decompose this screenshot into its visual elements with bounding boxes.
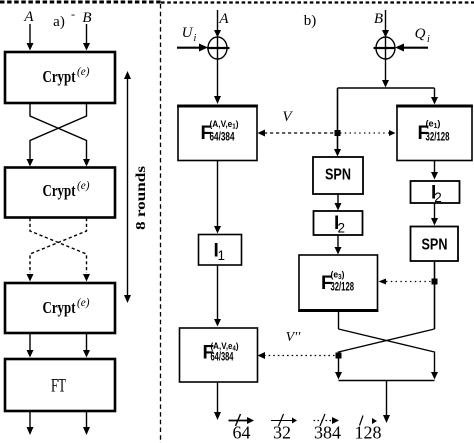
svg-text:SPN: SPN — [325, 167, 351, 184]
junction V'' — [336, 353, 342, 359]
box I1 — [199, 235, 242, 266]
svg-text:i: i — [427, 34, 430, 45]
svg-text:384: 384 — [314, 423, 341, 443]
svg-text:Crypt: Crypt — [43, 181, 76, 200]
wire SPN right down to crossing — [434, 261, 436, 329]
label Qi — [415, 26, 430, 45]
legend 32 — [271, 414, 297, 443]
svg-text:Crypt: Crypt — [43, 67, 76, 86]
svg-text:(e1): (e1) — [426, 119, 441, 131]
svg-text:(e3): (e3) — [331, 270, 345, 282]
dotted wire feedback into F3 — [379, 279, 435, 285]
wire I2 to F3 — [335, 235, 342, 255]
svg-text:32/128: 32/128 — [331, 282, 355, 294]
svg-text:8 rounds: 8 rounds — [134, 165, 149, 230]
arrow Ui into xor1 — [177, 44, 208, 52]
wire B input — [83, 24, 90, 51]
svg-text:A: A — [23, 9, 34, 25]
svg-text:2: 2 — [338, 221, 346, 236]
wire F3 down into crossing — [338, 311, 340, 329]
xor 2 — [374, 37, 396, 59]
svg-text:SPN: SPN — [422, 237, 448, 254]
box I2 (left chain) — [314, 211, 363, 236]
merge bus line — [339, 380, 435, 382]
box Crypt round 2 — [5, 168, 115, 218]
svg-text:32: 32 — [273, 423, 291, 443]
box F4 F64/384 (A,V,e4) — [180, 328, 258, 382]
svg-text:i: i — [194, 33, 197, 44]
dashed wire V into F1 — [258, 130, 338, 137]
svg-text:Crypt: Crypt — [43, 298, 76, 317]
legend 384 — [314, 414, 342, 443]
box I2 (right chain) — [411, 181, 460, 205]
dashed top border — [0, 1, 474, 5]
box SPN (left chain) — [313, 157, 363, 194]
svg-text:(e): (e) — [77, 297, 90, 309]
svg-text:64/384: 64/384 — [211, 352, 234, 364]
svg-text:32/128: 32/128 — [426, 132, 450, 144]
wire B to xor2 — [382, 10, 389, 38]
svg-text:1: 1 — [218, 248, 226, 263]
svg-text:64/384: 64/384 — [210, 132, 235, 144]
box Crypt round 3 — [5, 283, 115, 333]
svg-text:U: U — [182, 25, 194, 41]
box SPN (right chain) — [411, 227, 459, 262]
wire split to F2 (right branch) — [431, 88, 438, 105]
box FT — [5, 359, 115, 411]
box F1 F64/384 (A,V,e1) — [177, 106, 258, 161]
svg-text:2: 2 — [434, 190, 442, 205]
box F3 F32/128 (e3) — [298, 255, 378, 311]
wire xor1 to F1 — [214, 58, 221, 104]
xor 1 — [207, 37, 230, 59]
wire split to SPN (left branch) — [334, 88, 341, 157]
output arrow of F4 — [214, 382, 221, 420]
svg-text:(e): (e) — [77, 180, 90, 192]
box Crypt round 1 — [5, 52, 115, 103]
wires Crypt3 to FT — [27, 333, 91, 358]
wire xor2 down to split — [382, 58, 389, 88]
split bus line — [338, 87, 435, 89]
dashed divider between a) and b) — [160, 4, 162, 443]
wire crossing 1 — [27, 103, 91, 167]
output arrows of a) — [27, 411, 91, 435]
dotted wire V'' into F4 — [258, 352, 339, 359]
legend 128 — [355, 416, 382, 443]
wire SPN to I2 — [335, 194, 342, 211]
wire crossing b) — [335, 329, 438, 380]
svg-text:(e): (e) — [77, 66, 90, 78]
output arrow of b) merge — [383, 381, 390, 424]
arrow Qi into xor2 — [395, 44, 428, 52]
wire A input — [27, 24, 34, 51]
wire F1 to I1 — [214, 161, 221, 234]
svg-text:FT: FT — [51, 376, 66, 397]
legend 64 — [229, 414, 255, 443]
box F2 F32/128 (e1) — [396, 106, 473, 161]
wire F2 to I2 (right chain) — [431, 161, 438, 180]
svg-text:-: - — [71, 7, 75, 21]
junction on SPN-right output — [432, 279, 438, 285]
svg-text:Q: Q — [415, 26, 426, 42]
wire A to xor1 — [214, 10, 221, 38]
svg-text:B: B — [82, 10, 91, 26]
dotted wire V into F2 — [340, 130, 396, 136]
svg-text:V′′: V′′ — [286, 330, 302, 345]
svg-text:64: 64 — [233, 423, 251, 443]
label Ui — [182, 25, 197, 44]
dashed wire crossing 2 — [30, 218, 87, 273]
arrow 8 rounds (double headed) — [124, 71, 131, 303]
wire I2 to SPN (right chain) — [431, 203, 438, 226]
svg-text:b): b) — [304, 13, 317, 29]
svg-text:a): a) — [53, 14, 65, 30]
svg-text:A: A — [218, 11, 229, 27]
svg-text:128: 128 — [355, 423, 382, 443]
junction V — [335, 130, 341, 136]
svg-text:B: B — [374, 11, 383, 27]
wire I1 to F4 — [214, 265, 221, 327]
